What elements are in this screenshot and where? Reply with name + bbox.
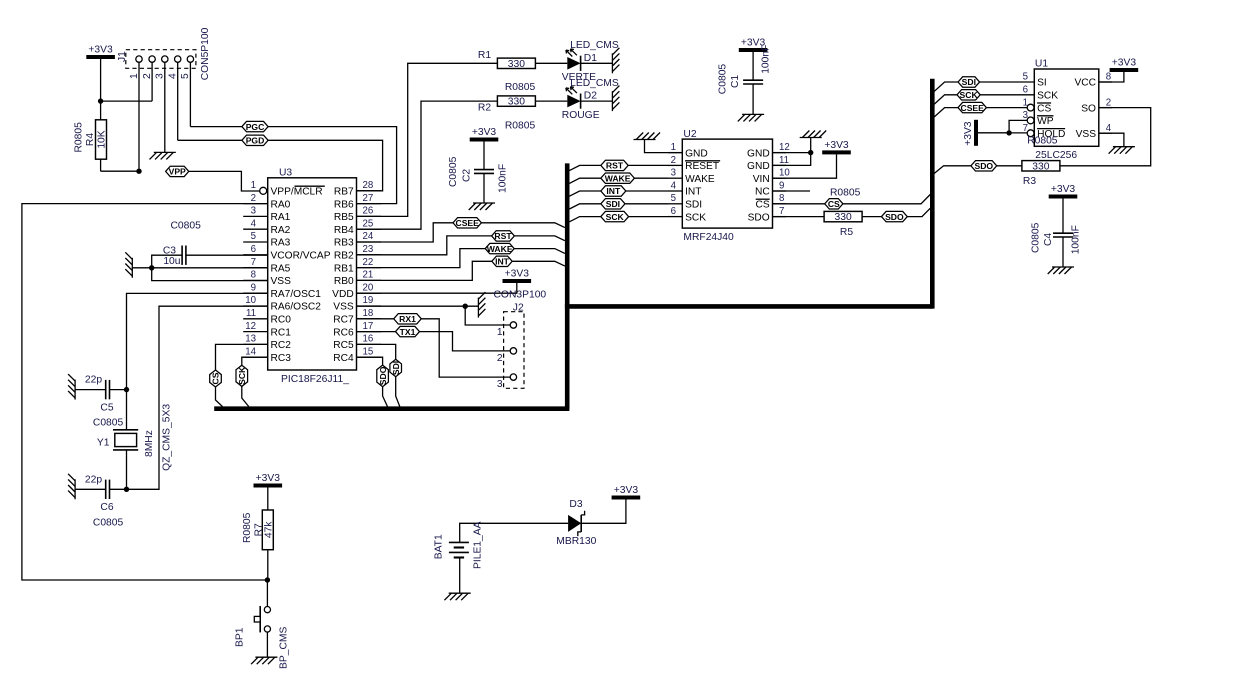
svg-text:VPP: VPP <box>169 167 186 177</box>
wire VPP to pin1 <box>189 171 260 191</box>
IC U1 25LC256 <box>1023 58 1112 161</box>
wire bus to CSEE flag <box>934 108 958 117</box>
wire <box>152 255 182 268</box>
wire <box>178 62 242 140</box>
svg-text:2: 2 <box>142 73 153 79</box>
wire <box>483 173 485 203</box>
net flag SCK (U1) <box>957 90 980 100</box>
net flag INT (U3) <box>492 256 512 266</box>
wire <box>126 390 128 430</box>
svg-text:SCK: SCK <box>237 366 247 385</box>
svg-text:RC7: RC7 <box>333 315 354 326</box>
svg-text:1: 1 <box>129 73 140 79</box>
svg-text:SDI: SDI <box>685 200 702 211</box>
wire <box>459 558 461 594</box>
wire <box>396 377 400 407</box>
svg-text:D3: D3 <box>569 499 582 510</box>
svg-text:SCK: SCK <box>606 212 625 222</box>
LED D1 <box>562 40 619 83</box>
svg-text:7: 7 <box>779 206 784 217</box>
wire RB5 to R1 <box>357 63 498 216</box>
svg-text:5: 5 <box>671 193 676 204</box>
svg-text:SDO: SDO <box>378 366 388 385</box>
net flag CSEE (U3) <box>453 218 481 228</box>
svg-text:MRF24J40: MRF24J40 <box>683 232 734 243</box>
svg-text:BP_CMS: BP_CMS <box>279 627 290 669</box>
wire NC stub <box>773 190 811 192</box>
svg-text:+3V3: +3V3 <box>505 269 530 280</box>
svg-text:C6: C6 <box>100 502 113 513</box>
wire <box>581 500 626 524</box>
wire <box>843 195 930 204</box>
svg-text:27: 27 <box>363 193 374 204</box>
power +3V3 (U1 WP/HOLD) <box>963 120 978 146</box>
wire bus to SCK flag <box>934 95 957 104</box>
net flag SDO (U2) <box>882 211 908 221</box>
svg-text:6: 6 <box>251 244 256 255</box>
svg-text:C0805: C0805 <box>93 418 124 429</box>
resistor R2 <box>478 82 536 131</box>
svg-text:4: 4 <box>251 218 257 229</box>
capacitor C5 <box>85 375 124 429</box>
value label R0805 (R3) <box>1027 136 1058 147</box>
svg-text:J2: J2 <box>513 303 524 314</box>
svg-text:RB1: RB1 <box>334 263 354 274</box>
wire <box>383 387 388 407</box>
wire <box>535 62 567 64</box>
svg-text:CSEE: CSEE <box>960 103 984 113</box>
wire <box>934 166 971 174</box>
net flag CS (U2) <box>825 187 861 209</box>
svg-text:C0805: C0805 <box>93 517 124 528</box>
svg-text:RC3: RC3 <box>271 353 292 364</box>
wire VIN <box>773 154 837 178</box>
net flag WAKE (U2) <box>601 173 635 183</box>
svg-text:RX1: RX1 <box>399 314 416 324</box>
svg-text:CON3P100: CON3P100 <box>494 289 547 300</box>
svg-text:R0805: R0805 <box>505 120 536 131</box>
svg-text:RA5: RA5 <box>271 263 291 274</box>
svg-text:4: 4 <box>168 73 179 79</box>
node junction GND12/GND11 <box>808 150 813 155</box>
svg-text:CS: CS <box>211 372 221 384</box>
bus (horizontal middle) <box>565 304 932 309</box>
wire bus to SCK flag <box>569 217 600 222</box>
bus (horizontal bottom) <box>214 406 569 411</box>
node junction R7/BP1/RA0 <box>265 577 270 582</box>
wire RC2 to CS flag <box>216 344 268 370</box>
wire <box>242 386 249 406</box>
wire bus to SDI flag <box>569 204 600 209</box>
svg-text:3: 3 <box>155 73 166 79</box>
svg-text:RC2: RC2 <box>271 340 292 351</box>
svg-text:5: 5 <box>180 73 191 79</box>
wire <box>581 62 613 64</box>
svg-text:18: 18 <box>363 308 374 319</box>
svg-text:21: 21 <box>363 270 374 281</box>
svg-text:3: 3 <box>671 168 676 179</box>
svg-text:PGD: PGD <box>246 136 265 146</box>
wire <box>862 216 881 218</box>
wire RB2 to RST flag <box>357 236 493 255</box>
wire <box>979 81 1035 83</box>
svg-text:3: 3 <box>251 206 256 217</box>
svg-text:+3V3: +3V3 <box>88 45 113 56</box>
svg-text:20: 20 <box>363 282 374 293</box>
svg-text:INT: INT <box>495 257 510 267</box>
svg-text:SDO: SDO <box>974 161 993 171</box>
svg-text:SCK: SCK <box>1037 91 1058 102</box>
wire <box>267 550 269 580</box>
svg-text:Y1: Y1 <box>97 438 110 449</box>
svg-text:U2: U2 <box>683 129 696 140</box>
svg-text:INT: INT <box>685 187 701 198</box>
wire <box>126 450 128 489</box>
svg-text:RB0: RB0 <box>334 276 354 287</box>
svg-text:6: 6 <box>1023 85 1028 96</box>
wire <box>460 523 568 542</box>
wire <box>75 488 106 490</box>
wire <box>986 107 1027 109</box>
svg-text:28: 28 <box>363 180 374 191</box>
svg-text:PGC: PGC <box>246 122 265 132</box>
svg-text:1: 1 <box>497 327 503 338</box>
wire RA0 to BP1 <box>22 204 268 580</box>
wire <box>1009 132 1027 134</box>
wire <box>110 389 127 391</box>
bus (vertical right) <box>930 79 935 309</box>
svg-text:3: 3 <box>1023 110 1028 121</box>
wire VDD to +3V3 <box>357 283 517 293</box>
svg-text:C0805: C0805 <box>718 64 729 95</box>
wire <box>481 223 565 228</box>
net flag CSEE (U1) <box>958 102 986 112</box>
wire RX1 to J2.3 <box>421 319 510 377</box>
svg-text:9: 9 <box>251 282 256 293</box>
svg-text:WAKE: WAKE <box>605 173 631 183</box>
svg-text:8: 8 <box>251 270 256 281</box>
capacitor C6 <box>85 474 124 528</box>
connector J1 CON5P100 <box>117 27 211 80</box>
svg-text:WAKE: WAKE <box>685 174 715 185</box>
ground (U2 pins 11/12) <box>800 131 827 138</box>
ground (J1 pin 3) <box>150 152 176 159</box>
net flag SCK (U2) <box>601 211 629 221</box>
svg-text:25LC256: 25LC256 <box>1035 150 1077 161</box>
IC U2 MRF24J40 <box>668 129 790 243</box>
svg-text:R0805: R0805 <box>1027 136 1058 147</box>
wire <box>110 488 127 490</box>
svg-text:330: 330 <box>835 212 852 223</box>
svg-text:10: 10 <box>779 168 790 179</box>
wire RA7/OSC1 <box>127 293 268 389</box>
svg-text:R0805: R0805 <box>73 122 84 153</box>
svg-text:CS: CS <box>1037 103 1051 114</box>
wire <box>138 62 140 171</box>
svg-text:RC6: RC6 <box>333 327 354 338</box>
svg-text:TX1: TX1 <box>400 327 416 337</box>
svg-text:17: 17 <box>363 321 374 332</box>
power +3V3 (U1 VCC) <box>1110 58 1139 73</box>
capacitor C2 <box>448 156 509 193</box>
svg-text:ROUGE: ROUGE <box>562 110 600 121</box>
svg-text:D1: D1 <box>584 53 597 64</box>
net flag RX1 <box>394 314 422 324</box>
node junction VSS/J2.1 <box>463 304 468 309</box>
svg-text:C4: C4 <box>1043 233 1054 246</box>
svg-text:R2: R2 <box>478 103 491 114</box>
svg-text:C5: C5 <box>100 403 113 414</box>
resistor R3 <box>1022 161 1060 187</box>
svg-text:C0805: C0805 <box>448 156 459 187</box>
wire <box>629 216 668 218</box>
wire SO to R3 <box>1060 108 1151 166</box>
node junction R4/J1.1/VPP <box>136 169 141 174</box>
svg-text:C2: C2 <box>462 169 473 182</box>
net flag SCK (U3) <box>236 365 248 386</box>
svg-text:PIC18F26J11_: PIC18F26J11_ <box>281 374 349 385</box>
ground (C6) <box>68 474 75 500</box>
svg-text:RST: RST <box>494 231 512 241</box>
node junction C6/Y1 <box>124 487 129 492</box>
wire <box>190 62 242 126</box>
ground (D1) <box>612 48 619 74</box>
ground (D2) <box>612 86 619 112</box>
svg-text:15: 15 <box>363 346 374 357</box>
wire <box>980 94 1034 96</box>
node junction +3V3/R4/J1.2 <box>98 98 103 103</box>
ground (C4) <box>1048 267 1074 274</box>
push button BP1 <box>235 606 290 669</box>
wire VSS row <box>357 305 479 307</box>
wire CS <box>773 203 825 205</box>
svg-text:+3V3: +3V3 <box>614 485 639 496</box>
svg-text:RC4: RC4 <box>333 353 354 364</box>
svg-text:R4: R4 <box>85 133 96 146</box>
svg-text:23: 23 <box>363 244 374 255</box>
svg-text:VDD: VDD <box>332 289 354 300</box>
svg-text:RC5: RC5 <box>333 340 354 351</box>
power +3V3 (U2 VIN) <box>822 140 851 155</box>
svg-text:R3: R3 <box>1023 176 1036 187</box>
ground (J2) <box>478 292 485 318</box>
wire bus to WAKE flag <box>569 178 600 183</box>
ground (C2) <box>469 203 495 210</box>
wire <box>581 100 613 102</box>
resistor R5 <box>824 211 862 238</box>
wire RC6 to TX1 <box>357 331 396 333</box>
svg-text:22p: 22p <box>85 375 102 386</box>
svg-text:CS: CS <box>828 199 840 209</box>
svg-text:4: 4 <box>1106 123 1112 134</box>
svg-text:+3V3: +3V3 <box>256 473 281 484</box>
svg-text:11: 11 <box>246 308 256 319</box>
wire <box>1062 237 1064 267</box>
svg-text:5: 5 <box>1023 72 1028 83</box>
wire <box>186 254 268 256</box>
ground (U2 pin1) <box>634 133 661 140</box>
node junction C5/Y1 <box>124 387 129 392</box>
power +3V3 (D3) <box>612 485 641 500</box>
svg-text:VPP/MCLR: VPP/MCLR <box>271 187 323 198</box>
capacitor C3 <box>163 220 201 267</box>
svg-text:11: 11 <box>779 155 789 166</box>
wire <box>75 389 106 391</box>
svg-text:LED_CMS: LED_CMS <box>570 78 619 89</box>
wire <box>465 306 510 325</box>
svg-text:CSEE: CSEE <box>455 218 479 228</box>
net flag CS (U3) <box>210 370 222 387</box>
svg-text:3: 3 <box>497 379 503 390</box>
wire <box>267 488 269 511</box>
wire <box>626 190 668 192</box>
wire <box>752 84 754 114</box>
wire <box>101 62 153 101</box>
svg-text:+3V3: +3V3 <box>1051 184 1076 195</box>
capacitor C1 <box>718 45 772 95</box>
svg-text:+3V3: +3V3 <box>472 127 497 138</box>
svg-text:1: 1 <box>1023 97 1028 108</box>
svg-text:NC: NC <box>755 187 770 198</box>
svg-text:VSS: VSS <box>1076 129 1097 140</box>
wire GND11 <box>773 138 811 166</box>
power +3V3 (C2) <box>470 127 499 142</box>
svg-text:VIN: VIN <box>753 174 770 185</box>
wire RA5 row <box>132 267 267 269</box>
wire <box>752 52 754 80</box>
svg-text:CON5P100: CON5P100 <box>200 27 211 80</box>
net flag TX1 <box>396 326 420 336</box>
ground (BAT1) <box>444 593 470 600</box>
svg-text:MBR130: MBR130 <box>556 536 596 547</box>
svg-text:19: 19 <box>363 295 374 306</box>
wire <box>100 101 102 120</box>
resistor R7 <box>242 510 275 550</box>
svg-text:8MHz: 8MHz <box>144 430 155 457</box>
svg-text:+3V3: +3V3 <box>824 140 849 151</box>
svg-text:BAT1: BAT1 <box>434 534 445 559</box>
svg-text:J1: J1 <box>117 51 128 62</box>
svg-text:330: 330 <box>508 59 525 70</box>
svg-text:2: 2 <box>671 155 676 166</box>
wire <box>907 208 930 216</box>
ground (U1 VSS) <box>1109 147 1135 154</box>
svg-text:100nF: 100nF <box>761 45 772 74</box>
wire <box>152 268 268 281</box>
svg-text:R1: R1 <box>478 50 491 61</box>
svg-text:SDI: SDI <box>606 199 620 209</box>
wire RC3 to SCK flag <box>242 357 268 365</box>
power +3V3 (J1 pull-up) <box>86 45 115 60</box>
svg-text:SDO: SDO <box>748 212 770 223</box>
svg-text:22: 22 <box>363 257 374 268</box>
wire <box>100 59 102 101</box>
wire RB0 to INT flag <box>357 261 493 280</box>
wire <box>978 132 1009 134</box>
net flag INT (U2) <box>601 186 626 196</box>
svg-text:RB6: RB6 <box>334 199 354 210</box>
svg-text:VCOR/VCAP: VCOR/VCAP <box>271 251 331 262</box>
svg-text:24: 24 <box>363 231 374 242</box>
svg-text:12: 12 <box>779 142 790 153</box>
wire bus to RST flag <box>569 165 600 170</box>
net flag SDI (U2) <box>601 199 625 209</box>
svg-text:8: 8 <box>1106 72 1111 83</box>
svg-text:SDI: SDI <box>962 77 976 87</box>
svg-text:RB2: RB2 <box>334 251 354 262</box>
svg-text:+3V3: +3V3 <box>1112 58 1137 69</box>
svg-text:VCC: VCC <box>1074 78 1096 89</box>
svg-text:R5: R5 <box>840 227 853 238</box>
svg-text:U1: U1 <box>1035 58 1048 69</box>
svg-text:5: 5 <box>251 231 256 242</box>
net flag SDO (U3) <box>377 365 389 387</box>
wire SDO row <box>773 216 825 218</box>
svg-text:QZ_CMS_5X3: QZ_CMS_5X3 <box>162 404 173 471</box>
capacitor C4 <box>1031 222 1082 254</box>
net flag SDO (U1) <box>971 161 997 171</box>
wire <box>1009 120 1027 132</box>
ground (BP1) <box>251 657 277 664</box>
svg-text:R0805: R0805 <box>505 82 536 93</box>
svg-text:RESET: RESET <box>685 161 719 172</box>
net flag PGD <box>242 135 268 145</box>
wire <box>625 203 668 205</box>
svg-text:LED_CMS: LED_CMS <box>570 40 619 51</box>
svg-text:CS: CS <box>756 200 770 211</box>
svg-text:SCK: SCK <box>960 90 979 100</box>
svg-text:1: 1 <box>671 142 676 153</box>
LED D2 <box>562 78 619 121</box>
svg-text:1: 1 <box>251 180 256 191</box>
wire GND1 to ground <box>645 140 683 153</box>
net flag SDI (U3) <box>390 359 402 376</box>
wire <box>997 165 1022 167</box>
svg-text:BP1: BP1 <box>235 627 246 647</box>
wire RC4 to SDO flag <box>357 357 383 365</box>
svg-text:2: 2 <box>1106 97 1111 108</box>
power +3V3 (C1) <box>739 38 768 53</box>
svg-text:C0805: C0805 <box>171 220 202 231</box>
svg-text:6: 6 <box>671 206 676 217</box>
wire PGD to RB7 <box>268 140 383 191</box>
svg-text:10: 10 <box>245 295 256 306</box>
svg-text:7: 7 <box>251 257 256 268</box>
svg-text:4: 4 <box>671 180 677 191</box>
svg-text:C0805: C0805 <box>1031 222 1042 253</box>
svg-text:R7: R7 <box>253 523 264 536</box>
svg-text:10K: 10K <box>97 130 108 148</box>
wire RA6/OSC2 <box>127 306 268 489</box>
wire bus to SDI flag <box>934 82 959 91</box>
svg-text:2: 2 <box>497 353 503 364</box>
svg-text:PILE1_AA: PILE1_AA <box>473 521 484 569</box>
svg-text:WP: WP <box>1037 116 1054 127</box>
svg-text:12: 12 <box>245 321 256 332</box>
svg-text:2: 2 <box>251 193 256 204</box>
wire VCC to +3V3 <box>1099 72 1124 82</box>
svg-text:R0805: R0805 <box>830 187 861 198</box>
wire <box>101 159 139 171</box>
node junction WP/HOLD <box>1006 130 1011 135</box>
svg-text:10u: 10u <box>163 256 180 267</box>
net flag SDI (U1) <box>958 77 980 87</box>
wire <box>535 100 567 102</box>
wire <box>266 580 268 607</box>
diode D3 MBR130 <box>556 499 596 547</box>
net flag WAKE (U3) <box>485 243 514 253</box>
svg-text:RA1: RA1 <box>271 212 291 223</box>
